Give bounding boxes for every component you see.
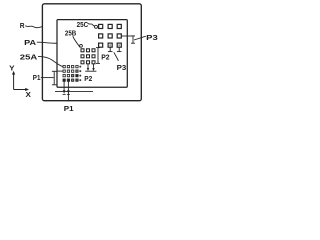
svg-text:P2: P2 [101, 53, 109, 62]
svg-text:25A: 25A [20, 53, 38, 62]
svg-text:P3: P3 [146, 33, 158, 42]
svg-text:R: R [20, 21, 26, 30]
svg-text:P2: P2 [84, 74, 92, 83]
svg-text:25C: 25C [77, 20, 89, 29]
svg-text:PA: PA [24, 38, 37, 47]
svg-text:P3: P3 [117, 63, 127, 72]
svg-text:25B: 25B [65, 29, 76, 38]
svg-text:Y: Y [9, 63, 15, 72]
svg-text:P1: P1 [33, 73, 41, 82]
svg-text:X: X [26, 90, 32, 99]
svg-text:P1: P1 [64, 104, 75, 113]
